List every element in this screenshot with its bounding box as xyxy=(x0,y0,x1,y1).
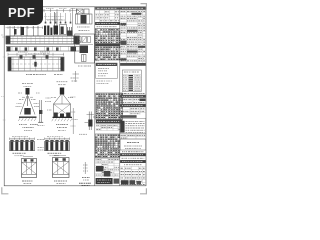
notes text block xyxy=(96,63,117,84)
pier section 2 xyxy=(45,137,70,156)
detail figure A boxes xyxy=(76,9,93,31)
figure annotation clutter xyxy=(16,93,76,110)
support assembly figure 2 xyxy=(51,82,78,131)
title block text bands xyxy=(120,152,146,165)
top elevation main girder xyxy=(6,36,79,44)
title block company area xyxy=(120,139,146,150)
corner bracket top-right xyxy=(141,4,147,10)
small leader detail xyxy=(71,71,80,82)
stamp band xyxy=(96,178,119,184)
top hanger columns xyxy=(44,13,71,24)
notes header xyxy=(96,63,117,66)
pier section 1 xyxy=(10,137,35,156)
truck figure 2 xyxy=(53,155,70,183)
table zone divider xyxy=(119,7,121,186)
table A header xyxy=(95,7,120,10)
table zone border left xyxy=(94,7,96,186)
table A bottom rows xyxy=(95,158,120,178)
weight table xyxy=(122,70,141,92)
top elevation dimension line xyxy=(6,8,79,12)
material schedule grid header band xyxy=(96,120,123,124)
anchor bolt detail xyxy=(85,112,97,131)
issue block xyxy=(120,118,146,133)
pier note text xyxy=(37,140,44,151)
center column detail xyxy=(38,100,45,126)
table A schedule grid xyxy=(95,29,121,61)
notes label xyxy=(95,60,99,62)
corner bracket bottom-right xyxy=(140,188,146,194)
title block lower table xyxy=(120,166,146,185)
truck figure 1 xyxy=(22,156,37,183)
table B header xyxy=(120,7,146,10)
material schedule grid upper xyxy=(96,93,123,120)
under-badge dimension row xyxy=(6,26,44,29)
drawing sheet frame xyxy=(4,7,146,186)
material schedule grid lower xyxy=(95,134,120,158)
table A rows below grid xyxy=(96,125,123,131)
table B mid bands xyxy=(120,94,146,118)
left leader line lower xyxy=(71,108,88,134)
table A upper rows xyxy=(95,10,120,22)
detail figure B boxed view xyxy=(75,34,95,66)
support assembly figure 1 xyxy=(18,84,38,131)
corner bracket bottom-left xyxy=(2,187,9,194)
plan view girder xyxy=(8,52,64,75)
small detail column right-bottom xyxy=(79,162,91,185)
top elevation equipment cluster xyxy=(10,12,73,36)
plan view dimension line xyxy=(8,53,64,56)
left margin zone ticks xyxy=(1,35,7,120)
revision table rows xyxy=(120,10,146,66)
table B pre-title rows xyxy=(120,134,146,139)
top elevation lower chord and trucks xyxy=(6,46,79,54)
right leader line xyxy=(71,8,73,36)
table A mid dark band xyxy=(95,22,120,27)
PDF badge xyxy=(0,0,43,25)
